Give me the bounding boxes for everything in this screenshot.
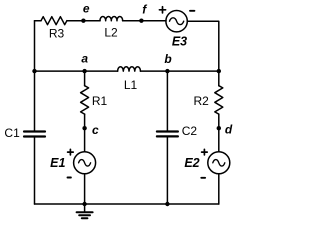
AC source E2 [208,152,230,174]
node d [217,126,221,130]
ground [84,204,86,212]
svg-text:f: f [142,3,147,17]
wire right rail to R2 [218,71,220,86]
resistor R3 [41,17,67,25]
node b [165,69,169,73]
wire a to R1 [84,71,86,86]
svg-text:R1: R1 [92,94,108,108]
wire E2 to bottom rail [218,174,220,204]
minus E1 [68,177,71,179]
svg-text:d: d [225,122,233,136]
svg-text:b: b [164,52,171,66]
node e [81,19,85,23]
node junction C2-bottom [165,202,169,206]
wire top rail left segment [35,20,42,22]
node c [82,126,86,130]
node junction left-mid [32,69,36,73]
wire b to C2 [166,71,168,131]
svg-text:c: c [92,123,99,137]
node junction E1-bottom [82,202,86,206]
inductor L1 [118,67,141,71]
AC source E3 [166,11,187,32]
wire bottom rail [35,203,219,205]
svg-text:L2: L2 [104,26,118,40]
capacitor C1 [24,130,45,132]
node a [82,69,86,73]
svg-text:E2: E2 [184,156,199,170]
wire R3 to L2 [67,20,100,22]
svg-text:C2: C2 [182,124,198,138]
wire left rail upper [34,21,36,131]
svg-text:E3: E3 [172,35,187,49]
resistor R2 [215,86,223,114]
svg-text:R2: R2 [194,94,210,108]
wire C2 to bottom rail [166,137,168,204]
resistor R1 [81,86,89,114]
plus E1 [68,149,74,155]
wire R1 to c to E1 [84,114,86,152]
wire E3 to top-right corner down to mid rail [187,21,219,71]
svg-text:C1: C1 [4,126,20,140]
AC source E1 [74,152,96,174]
wire mid rail [35,70,118,72]
svg-text:E1: E1 [50,156,65,170]
node f [139,19,143,23]
capacitor C2 [157,130,178,132]
wire L2 to E3 [123,20,166,22]
wire L1 to right rail [140,70,218,72]
minus E3 [190,10,194,12]
plus E2 [202,149,208,155]
inductor L2 [100,17,123,21]
node junction right-mid [217,69,221,73]
svg-text:R3: R3 [49,27,65,41]
svg-text:e: e [83,2,90,16]
wire left rail lower [34,137,36,204]
plus E3 [159,7,165,13]
svg-text:a: a [81,52,88,66]
wire E1 to bottom rail [84,174,86,204]
svg-text:L1: L1 [124,78,138,92]
minus E2 [201,177,205,179]
wire R2 to d to E2 [218,114,220,152]
